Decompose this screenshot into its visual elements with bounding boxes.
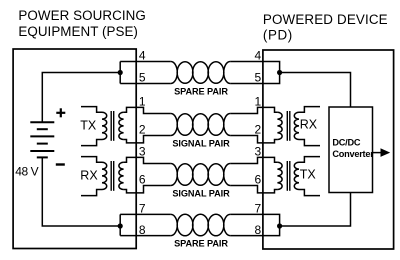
wire pin 3 PD (230, 157, 277, 163)
svg-text:EQUIPMENT (PSE): EQUIPMENT (PSE) (18, 24, 138, 39)
svg-text:(PD): (PD) (263, 27, 293, 42)
twisted pair cable B (signal pair 1/2) (171, 114, 230, 136)
twisted pair cable D (spare pair 7/8) (171, 214, 230, 236)
transformer T1 TX (PSE) right winding (119, 112, 124, 139)
wire pin 7 PD (230, 214, 279, 226)
wire PD bottom feed to DC/DC converter (280, 193, 351, 227)
junction node dot PD bottom (pins 7/8) (277, 223, 282, 228)
twisted pair cable C (signal pair 3/6) (171, 164, 230, 186)
svg-text:POWER SOURCING: POWER SOURCING (18, 8, 145, 23)
wire pin 3 PSE (124, 157, 171, 163)
svg-text:48 V: 48 V (15, 165, 38, 179)
svg-text:4: 4 (254, 49, 261, 63)
svg-text:4: 4 (139, 49, 146, 63)
transformer T2 RX (PSE) right winding (119, 162, 124, 189)
transformer T1 TX (PSE) core (110, 111, 112, 141)
svg-text:2: 2 (139, 123, 146, 137)
svg-text:1: 1 (139, 95, 146, 109)
transformer T3 RX (PD) core (286, 111, 288, 141)
svg-text:5: 5 (254, 71, 261, 85)
wire pin 4 PD (230, 62, 279, 73)
svg-text:7: 7 (139, 202, 146, 216)
svg-text:DC/DC: DC/DC (332, 138, 360, 148)
wire pin 8 PD (230, 226, 279, 236)
svg-text:SIGNAL PAIR: SIGNAL PAIR (172, 188, 230, 198)
transformer T1 TX (PSE) left winding (81, 107, 107, 146)
transformer T3 RX (PD) right winding (294, 107, 320, 146)
battery minus symbol (56, 163, 65, 165)
transformer T4 TX (PD) left winding (277, 162, 282, 189)
svg-text:3: 3 (254, 145, 261, 159)
svg-text:SPARE PAIR: SPARE PAIR (174, 86, 228, 96)
transformer T2 RX (PSE) left winding (81, 157, 107, 196)
transformer T4 TX (PD) right winding (294, 157, 320, 196)
junction node dot PD top (pins 4/5) (277, 70, 282, 75)
svg-text:TX: TX (80, 119, 97, 133)
svg-text:5: 5 (139, 71, 146, 85)
PSE enclosure box (13, 49, 136, 249)
DC/DC converter output arrow (373, 152, 382, 154)
transformer T4 TX (PD) core (286, 161, 288, 191)
wire PD top feed to DC/DC converter (280, 73, 351, 108)
svg-text:8: 8 (254, 223, 261, 237)
wire pin 7 PSE (119, 214, 121, 226)
wire pin 5 PD (230, 73, 279, 84)
svg-text:POWERED DEVICE: POWERED DEVICE (263, 12, 388, 27)
battery BT1 48V negative wire (42, 157, 120, 226)
svg-text:RX: RX (80, 169, 98, 183)
battery plus symbol (56, 108, 65, 117)
wire pin 6 PD (230, 186, 277, 193)
svg-text:3: 3 (139, 145, 146, 159)
svg-text:6: 6 (254, 173, 261, 187)
svg-text:6: 6 (139, 173, 146, 187)
wire pin 6 PSE (124, 186, 171, 193)
twisted pair cable A (spare pair 4/5) (171, 62, 230, 84)
svg-text:Converter: Converter (332, 149, 374, 159)
wire pin 5 PSE (119, 73, 121, 84)
svg-text:1: 1 (254, 95, 261, 109)
svg-text:2: 2 (254, 123, 261, 137)
PD enclosure box (263, 50, 394, 249)
transformer T2 RX (PSE) core (110, 161, 112, 191)
wire pin 2 PD (230, 136, 277, 143)
DC/DC converter U1 box (329, 107, 373, 193)
wire pin 1 PD (230, 107, 277, 113)
svg-text:SIGNAL PAIR: SIGNAL PAIR (172, 138, 230, 148)
wire pin 2 PSE (124, 136, 171, 143)
battery BT1 plates (30, 122, 54, 157)
battery BT1 48V positive wire (42, 73, 120, 123)
wire pin 4 PSE (119, 62, 121, 73)
transformer T3 RX (PD) left winding (277, 112, 282, 139)
wire pin 1 PSE (124, 107, 171, 113)
svg-text:TX: TX (300, 168, 317, 182)
junction node dot PSE bottom (pins 7/8) (118, 223, 123, 228)
svg-text:SPARE PAIR: SPARE PAIR (174, 239, 228, 249)
svg-text:7: 7 (254, 202, 261, 216)
junction node dot PSE top (pins 4/5) (118, 70, 123, 75)
svg-text:8: 8 (139, 223, 146, 237)
wire pin 8 PSE (119, 226, 121, 236)
svg-text:RX: RX (300, 118, 318, 132)
